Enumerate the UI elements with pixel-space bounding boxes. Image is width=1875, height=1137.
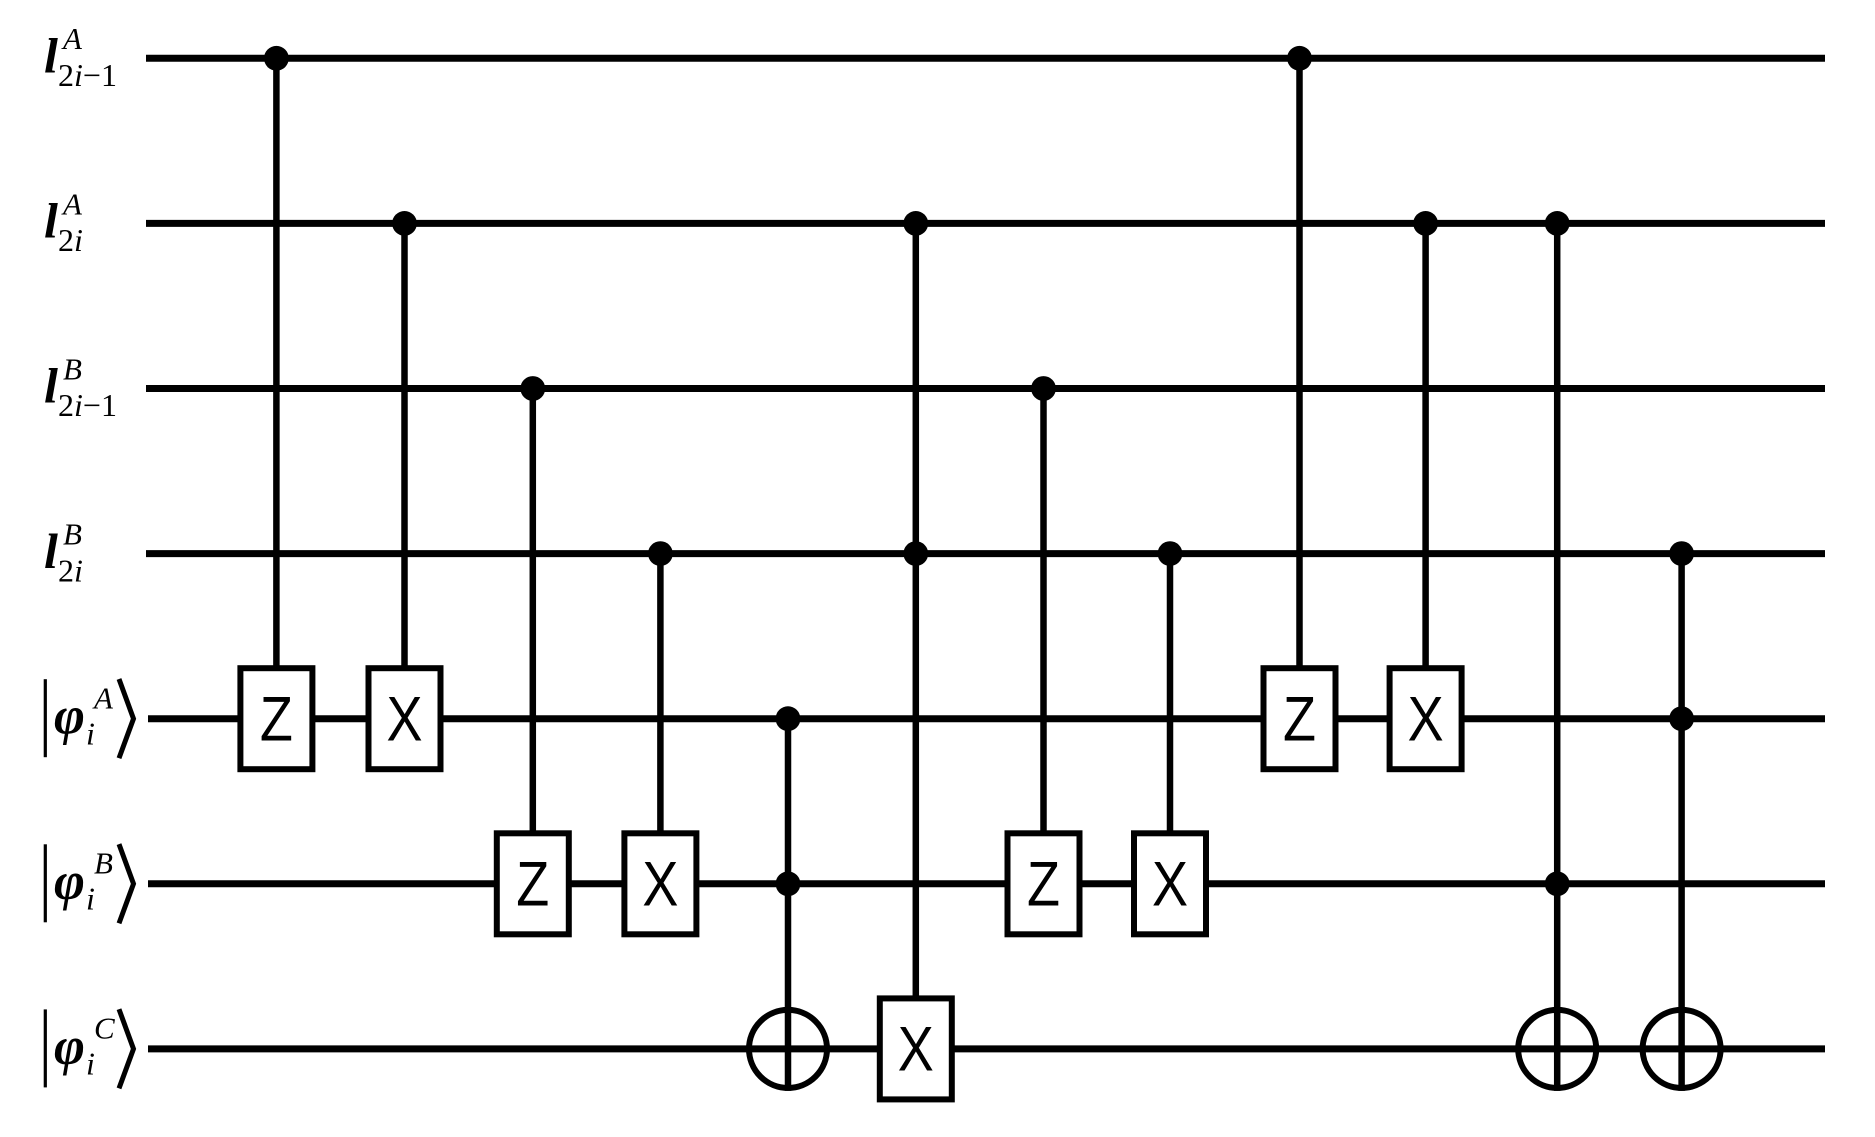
svg-text:X: X: [642, 850, 678, 920]
svg-text:Z: Z: [260, 685, 293, 755]
wire control line col1: [273, 58, 280, 666]
svg-text:B: B: [63, 351, 82, 386]
node label l^B_2i: [44, 517, 83, 589]
svg-text:X: X: [386, 685, 422, 755]
control dot col6 lB2i: [903, 541, 928, 566]
control dot col12 lB2i: [1669, 541, 1694, 566]
wire lB2i-1: [146, 385, 1825, 392]
gate X3 (Toffoli target) on phiC: [880, 998, 952, 1099]
wire lB2i: [146, 550, 1825, 557]
control dot col4 lB2i: [648, 541, 673, 566]
wire control line col8: [1167, 554, 1174, 832]
wire control line col9: [1296, 58, 1303, 666]
gate Z2 on phiB: [497, 833, 569, 934]
svg-text:2i: 2i: [58, 222, 83, 258]
control dot col10 lA2i: [1413, 211, 1438, 236]
svg-text:X: X: [898, 1015, 934, 1085]
svg-text:B: B: [63, 517, 82, 552]
gate Z1 on phiA: [240, 668, 312, 769]
gate Z3 on phiB: [1008, 833, 1080, 934]
control dot col12 phiA: [1669, 706, 1694, 731]
control dot col6 lA2i: [903, 211, 928, 236]
svg-text:l: l: [44, 523, 58, 579]
wire control line col3: [530, 389, 537, 832]
gate X2 on phiB: [624, 833, 696, 934]
wire phiA: [148, 715, 1825, 722]
svg-text:φ: φ: [54, 685, 85, 746]
svg-text:i: i: [86, 881, 95, 917]
svg-text:X: X: [1408, 685, 1444, 755]
svg-text:φ: φ: [54, 1015, 85, 1076]
svg-text:φ: φ: [54, 850, 85, 911]
control dot col9 lA2i-1: [1287, 46, 1312, 71]
gate X4 on phiB: [1134, 833, 1206, 934]
wire phiB: [148, 880, 1825, 887]
svg-text:B: B: [94, 846, 113, 881]
svg-text:l: l: [44, 193, 58, 249]
svg-text:l: l: [44, 358, 58, 414]
node label l^B_2i-1: [44, 351, 117, 423]
wire control line col4: [657, 554, 664, 832]
control dot col11 phiB: [1545, 871, 1570, 896]
gate X1 on phiA: [369, 668, 441, 769]
wire control line col5: [785, 719, 792, 1091]
control dot col5 phiA: [776, 706, 801, 731]
wire lA2i: [146, 220, 1825, 227]
control dot col1 lA2i-1: [264, 46, 289, 71]
control dot col3 lB2i-1: [520, 376, 545, 401]
svg-text:C: C: [94, 1011, 115, 1046]
svg-text:i: i: [86, 715, 95, 751]
svg-text:A: A: [61, 186, 83, 221]
node label ket phi^A_i: [44, 679, 134, 758]
svg-text:Z: Z: [516, 850, 549, 920]
wire control line col7: [1040, 389, 1047, 832]
control dot col7 lB2i-1: [1031, 376, 1056, 401]
wire control line col11: [1554, 223, 1561, 1091]
svg-text:2i: 2i: [58, 552, 83, 588]
wire control line col6: [913, 223, 920, 996]
svg-text:2i−1: 2i−1: [58, 57, 117, 93]
wire lA2i-1: [146, 55, 1825, 62]
gate Z4 on phiA: [1264, 668, 1336, 769]
wire control line col2: [401, 223, 408, 666]
cnot target oplus col12 on phiC: [1643, 1010, 1721, 1088]
cnot target oplus col11 on phiC: [1518, 1010, 1596, 1088]
control dot col5 phiB: [776, 871, 801, 896]
node label ket phi^C_i: [44, 1009, 134, 1088]
svg-text:X: X: [1152, 850, 1188, 920]
control dot col2 lA2i: [392, 211, 417, 236]
wire control line col12: [1678, 554, 1685, 1091]
node label ket phi^B_i: [44, 844, 134, 923]
svg-text:A: A: [61, 21, 83, 56]
node label l^A_2i: [44, 186, 83, 258]
wire control line col10: [1422, 223, 1429, 666]
wire phiC: [148, 1045, 1825, 1052]
control dot col11 lA2i: [1545, 211, 1570, 236]
svg-text:Z: Z: [1283, 685, 1316, 755]
svg-text:i: i: [86, 1046, 95, 1082]
control dot col8 lB2i: [1158, 541, 1183, 566]
svg-text:l: l: [44, 28, 58, 84]
svg-text:2i−1: 2i−1: [58, 387, 117, 423]
svg-text:A: A: [92, 681, 114, 716]
svg-text:Z: Z: [1027, 850, 1060, 920]
gate X5 on phiA: [1390, 668, 1462, 769]
node label l^A_2i-1: [44, 21, 117, 93]
cnot target oplus col5 on phiC: [749, 1010, 827, 1088]
